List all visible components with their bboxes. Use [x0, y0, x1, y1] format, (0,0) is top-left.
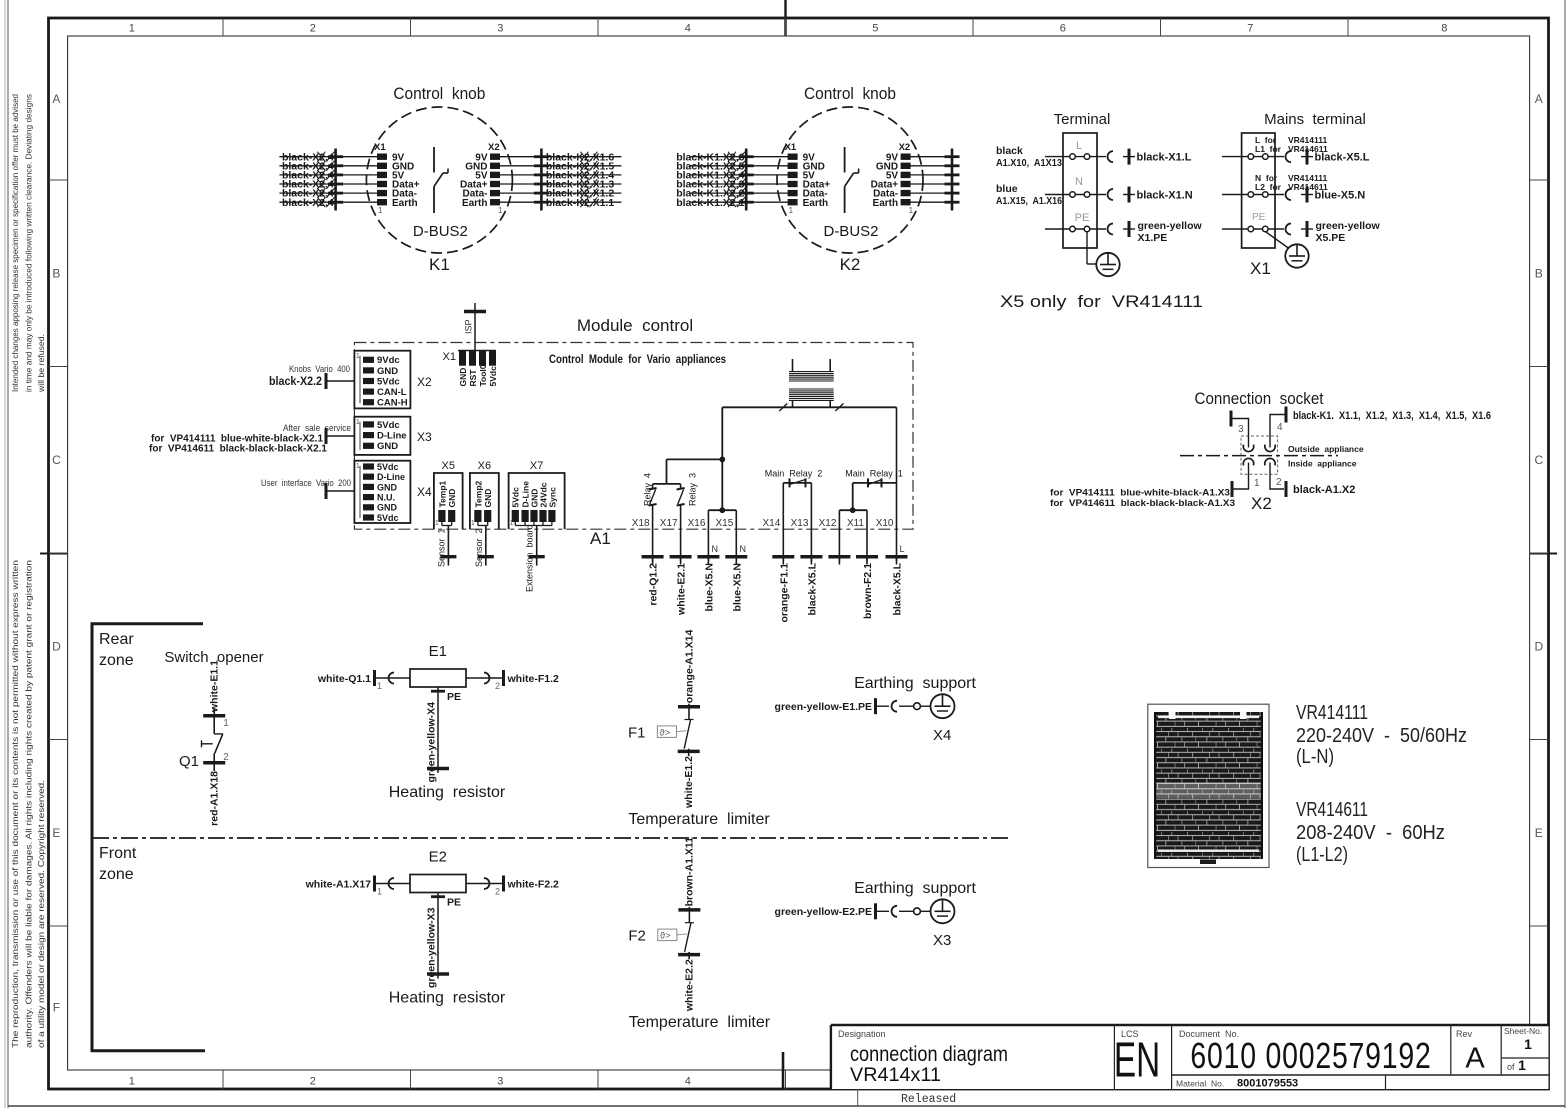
- svg-text:X10: X10: [876, 518, 894, 529]
- svg-text:X17: X17: [660, 518, 678, 529]
- svg-text:Designation: Designation: [838, 1029, 886, 1039]
- svg-text:for VP414611 black-black-bla: for VP414611 black-black-black-A1.X3: [1050, 498, 1235, 509]
- svg-text:1: 1: [510, 520, 514, 527]
- svg-text:5: 5: [872, 23, 878, 35]
- svg-text:white-E2.1: white-E2.1: [676, 563, 688, 616]
- svg-text:A: A: [1535, 92, 1543, 106]
- svg-text:X3: X3: [933, 932, 951, 949]
- svg-text:EN: EN: [1114, 1032, 1160, 1087]
- svg-text:Connection socket: Connection socket: [1195, 389, 1324, 408]
- svg-text:A1.X15, A1.X16: A1.X15, A1.X16: [996, 195, 1062, 207]
- svg-text:X1: X1: [785, 142, 797, 153]
- svg-text:X2: X2: [1251, 494, 1272, 513]
- svg-text:for VP414111 blue-white-blac: for VP414111 blue-white-black-A1.X3: [1050, 488, 1230, 499]
- svg-text:Tool0: Tool0: [478, 364, 488, 386]
- svg-text:7: 7: [1247, 23, 1253, 35]
- svg-text:B: B: [1535, 266, 1543, 280]
- svg-text:VR414611: VR414611: [1288, 182, 1328, 192]
- svg-text:8: 8: [1441, 23, 1447, 35]
- svg-text:5Vdc: 5Vdc: [377, 376, 400, 387]
- svg-text:6010 0002579192: 6010 0002579192: [1190, 1036, 1431, 1076]
- svg-text:2: 2: [310, 23, 316, 35]
- svg-text:2: 2: [310, 1076, 316, 1088]
- svg-text:A1.X10, A1X13: A1.X10, A1X13: [996, 157, 1062, 169]
- svg-text:green-yellow-E1.PE: green-yellow-E1.PE: [775, 701, 872, 713]
- svg-text:X7: X7: [530, 460, 543, 472]
- svg-text:X12: X12: [819, 518, 837, 529]
- svg-text:1: 1: [129, 1076, 135, 1088]
- svg-text:5Vdc: 5Vdc: [511, 487, 521, 508]
- svg-text:C: C: [52, 453, 61, 467]
- svg-text:blue-X5.N: blue-X5.N: [703, 563, 715, 611]
- svg-text:208-240V - 60Hz: 208-240V - 60Hz: [1296, 822, 1445, 844]
- svg-text:ISP: ISP: [464, 319, 474, 334]
- svg-text:Module control: Module control: [577, 316, 693, 335]
- svg-text:white-A1.X17: white-A1.X17: [305, 879, 372, 891]
- svg-text:white-F2.2: white-F2.2: [507, 879, 560, 891]
- svg-text:X15: X15: [716, 518, 734, 529]
- svg-text:Main Relay 2: Main Relay 2: [765, 469, 823, 479]
- svg-text:E1: E1: [429, 643, 447, 660]
- svg-text:F: F: [53, 1001, 60, 1015]
- svg-text:zone: zone: [99, 866, 134, 883]
- svg-text:X1: X1: [443, 351, 456, 363]
- svg-text:After sale service: After sale service: [283, 423, 351, 434]
- svg-text:Terminal: Terminal: [1054, 111, 1111, 128]
- svg-text:white-F1.2: white-F1.2: [507, 673, 560, 685]
- svg-text:User interface Vario 200: User interface Vario 200: [261, 478, 351, 489]
- svg-text:black-X1.L: black-X1.L: [1137, 152, 1192, 164]
- svg-text:A: A: [1465, 1043, 1485, 1075]
- svg-text:black-A1.X2: black-A1.X2: [1293, 484, 1355, 496]
- svg-text:Temp2: Temp2: [473, 480, 483, 507]
- svg-text:brown-A1.X11: brown-A1.X11: [684, 837, 696, 907]
- svg-text:Mains terminal: Mains terminal: [1264, 111, 1366, 128]
- svg-text:3: 3: [1238, 424, 1244, 435]
- svg-text:Q1: Q1: [179, 753, 199, 770]
- svg-text:VR414111: VR414111: [1296, 702, 1368, 724]
- svg-text:1: 1: [471, 520, 475, 527]
- svg-text:E: E: [52, 826, 60, 840]
- svg-text:D: D: [52, 639, 61, 653]
- svg-text:X11: X11: [847, 518, 864, 529]
- svg-text:Relay 4: Relay 4: [642, 473, 652, 506]
- svg-text:for VP414611 black-black-bla: for VP414611 black-black-black-X2.1: [149, 444, 327, 455]
- svg-text:5Vdc: 5Vdc: [488, 366, 498, 387]
- svg-text:1: 1: [498, 206, 503, 215]
- svg-text:1: 1: [356, 353, 360, 360]
- svg-text:1: 1: [909, 206, 914, 215]
- svg-text:1: 1: [435, 520, 439, 527]
- svg-text:white-Q1.1: white-Q1.1: [317, 673, 371, 685]
- svg-text:orange-F1.1: orange-F1.1: [778, 563, 790, 623]
- svg-text:Sensor 1: Sensor 1: [436, 528, 446, 567]
- svg-text:1: 1: [223, 718, 229, 729]
- svg-text:black: black: [996, 145, 1023, 157]
- svg-text:L2 for: L2 for: [1255, 182, 1282, 192]
- svg-text:CAN-L: CAN-L: [377, 387, 407, 398]
- svg-text:zone: zone: [99, 652, 134, 669]
- svg-text:ϑ>: ϑ>: [660, 931, 671, 942]
- svg-text:5Vdc: 5Vdc: [377, 513, 399, 523]
- svg-text:Relay 3: Relay 3: [688, 473, 698, 506]
- svg-text:Temp1: Temp1: [437, 480, 447, 507]
- svg-text:1: 1: [356, 419, 360, 426]
- svg-text:green-yellow-X3: green-yellow-X3: [426, 907, 438, 988]
- svg-text:Temperature limiter: Temperature limiter: [628, 811, 770, 828]
- svg-text:VR414x11: VR414x11: [850, 1065, 941, 1086]
- svg-text:blue: blue: [996, 183, 1018, 195]
- svg-text:Earthing support: Earthing support: [854, 675, 976, 692]
- svg-text:red-A1.X18: red-A1.X18: [209, 771, 221, 826]
- svg-text:N: N: [740, 544, 747, 554]
- svg-text:black-X5.L: black-X5.L: [806, 562, 818, 615]
- svg-text:D: D: [1534, 639, 1543, 653]
- svg-text:Control knob: Control knob: [804, 84, 896, 103]
- svg-text:4: 4: [1277, 422, 1283, 433]
- svg-text:white-E1.1: white-E1.1: [209, 660, 221, 713]
- svg-text:1: 1: [1518, 1057, 1526, 1073]
- svg-text:(L-N): (L-N): [1296, 746, 1334, 768]
- svg-text:1: 1: [377, 681, 382, 691]
- svg-text:3: 3: [497, 23, 503, 35]
- svg-text:Sheet-No.: Sheet-No.: [1504, 1026, 1542, 1036]
- svg-text:K2: K2: [840, 255, 861, 274]
- svg-text:220-240V - 50/60Hz: 220-240V - 50/60Hz: [1296, 725, 1467, 747]
- svg-text:(L1-L2): (L1-L2): [1296, 844, 1348, 866]
- svg-text:Earth: Earth: [392, 198, 418, 209]
- svg-text:green-yellow: green-yellow: [1316, 220, 1381, 232]
- svg-text:PE: PE: [447, 691, 461, 703]
- svg-text:D-Line: D-Line: [377, 472, 405, 482]
- svg-text:F2: F2: [628, 928, 646, 945]
- svg-text:K1: K1: [429, 255, 450, 274]
- svg-text:N: N: [1075, 176, 1083, 188]
- svg-text:X4: X4: [933, 727, 951, 744]
- svg-text:Extension board: Extension board: [525, 524, 535, 592]
- svg-text:Intended changes apposing rele: Intended changes apposing release specim…: [10, 94, 20, 392]
- svg-text:Control knob: Control knob: [393, 84, 485, 103]
- svg-text:Earth: Earth: [873, 198, 899, 209]
- svg-text:GND: GND: [377, 482, 398, 492]
- svg-text:PE: PE: [447, 897, 461, 909]
- svg-text:2: 2: [495, 887, 500, 897]
- svg-text:1: 1: [378, 206, 383, 215]
- svg-text:X5: X5: [442, 460, 455, 472]
- svg-text:ϑ>: ϑ>: [660, 727, 671, 738]
- svg-text:orange-A1.X14: orange-A1.X14: [683, 630, 695, 704]
- svg-text:L: L: [1076, 140, 1082, 152]
- svg-text:GND: GND: [447, 489, 457, 508]
- svg-text:connection diagram: connection diagram: [850, 1043, 1008, 1066]
- svg-text:D-BUS2: D-BUS2: [823, 223, 878, 240]
- svg-text:X1.PE: X1.PE: [1138, 232, 1168, 244]
- svg-text:PE: PE: [1252, 212, 1266, 223]
- svg-text:Front: Front: [99, 845, 137, 862]
- svg-text:X2: X2: [488, 142, 500, 153]
- svg-text:black-X5.L: black-X5.L: [892, 562, 904, 615]
- svg-text:will be refused.: will be refused.: [36, 334, 46, 393]
- svg-text:5Vdc: 5Vdc: [377, 462, 399, 472]
- svg-text:green-yellow-E2.PE: green-yellow-E2.PE: [775, 906, 872, 918]
- svg-text:1: 1: [789, 206, 794, 215]
- svg-text:GND: GND: [377, 366, 398, 377]
- svg-text:1: 1: [356, 463, 360, 470]
- svg-text:8001079553: 8001079553: [1237, 1078, 1298, 1090]
- svg-text:Heating resistor: Heating resistor: [389, 784, 506, 801]
- svg-text:VR414611: VR414611: [1288, 144, 1328, 154]
- svg-text:X1: X1: [374, 142, 386, 153]
- svg-text:2: 2: [1276, 477, 1282, 488]
- svg-text:GND: GND: [483, 489, 493, 508]
- svg-text:black-K1. X1.1, X1.2, X1.3,: black-K1. X1.1, X1.2, X1.3, X1.4, X1.5, …: [1293, 410, 1491, 422]
- svg-text:Earth: Earth: [803, 198, 829, 209]
- svg-text:of a utility model or design a: of a utility model or design are reserve…: [36, 780, 46, 1048]
- svg-text:2: 2: [223, 752, 229, 763]
- svg-text:Inside appliance: Inside appliance: [1288, 459, 1357, 469]
- svg-text:3: 3: [497, 1076, 503, 1088]
- svg-text:black-X2.2: black-X2.2: [269, 374, 322, 388]
- svg-text:N: N: [712, 544, 719, 554]
- svg-text:in time and may only be introd: in time and may only be introduced follo…: [24, 93, 34, 392]
- svg-text:X16: X16: [688, 518, 706, 529]
- svg-text:white-E2.2: white-E2.2: [683, 959, 695, 1012]
- svg-text:F1: F1: [628, 724, 646, 741]
- svg-text:X1: X1: [1250, 259, 1271, 278]
- svg-text:A: A: [52, 92, 60, 106]
- svg-text:Temperature limiter: Temperature limiter: [629, 1014, 771, 1031]
- svg-text:X3: X3: [417, 430, 432, 444]
- svg-text:Earthing support: Earthing support: [854, 880, 976, 897]
- svg-text:L: L: [900, 544, 905, 554]
- svg-text:X5.PE: X5.PE: [1316, 232, 1346, 244]
- svg-text:The reproduction, transmission: The reproduction, transmission or use of…: [10, 560, 20, 1048]
- svg-text:X18: X18: [632, 518, 650, 529]
- svg-text:Outside appliance: Outside appliance: [1288, 444, 1364, 454]
- svg-text:blue-X5.N: blue-X5.N: [731, 563, 743, 611]
- svg-text:B: B: [52, 266, 60, 280]
- svg-text:4: 4: [685, 1076, 691, 1088]
- svg-text:GND: GND: [458, 368, 468, 387]
- svg-text:N.U.: N.U.: [377, 493, 395, 503]
- svg-text:PE: PE: [1075, 212, 1090, 224]
- svg-text:6: 6: [1060, 23, 1066, 35]
- svg-text:1: 1: [377, 887, 382, 897]
- svg-text:black-K2.X1.1: black-K2.X1.1: [546, 197, 614, 209]
- svg-text:X2: X2: [899, 142, 911, 153]
- svg-text:1: 1: [1524, 1036, 1532, 1052]
- svg-text:GND: GND: [377, 503, 398, 513]
- svg-text:red-Q1.2: red-Q1.2: [648, 563, 660, 606]
- svg-text:green-yellow-X4: green-yellow-X4: [426, 702, 438, 783]
- svg-text:brown-F2.1: brown-F2.1: [862, 563, 874, 619]
- svg-text:C: C: [1534, 453, 1543, 467]
- svg-text:2: 2: [495, 681, 500, 691]
- svg-text:of: of: [1507, 1062, 1515, 1072]
- svg-text:GND: GND: [377, 441, 398, 452]
- svg-text:CAN-H: CAN-H: [377, 398, 408, 409]
- svg-text:X13: X13: [791, 518, 809, 529]
- svg-text:Sync: Sync: [547, 487, 557, 508]
- svg-text:Sensor 2: Sensor 2: [474, 528, 484, 567]
- svg-text:X14: X14: [763, 518, 781, 529]
- svg-text:Earth: Earth: [462, 198, 488, 209]
- svg-text:Material No.: Material No.: [1176, 1079, 1224, 1089]
- svg-text:1: 1: [129, 23, 135, 35]
- svg-text:A1: A1: [590, 529, 611, 548]
- svg-text:L1 for: L1 for: [1255, 144, 1282, 154]
- svg-text:X2: X2: [417, 375, 432, 389]
- svg-text:X6: X6: [478, 460, 491, 472]
- svg-text:1: 1: [1254, 478, 1260, 489]
- svg-text:RST: RST: [468, 369, 478, 387]
- svg-text:white-E1.2: white-E1.2: [683, 756, 695, 809]
- svg-text:X4: X4: [417, 485, 432, 499]
- svg-text:Rear: Rear: [99, 631, 134, 648]
- svg-text:Released: Released: [901, 1093, 956, 1106]
- svg-text:E2: E2: [429, 849, 447, 866]
- svg-text:9Vdc: 9Vdc: [377, 355, 400, 366]
- svg-text:X5 only for VR414111: X5 only for VR414111: [1000, 292, 1203, 311]
- svg-text:authority. Offenders will be l: authority. Offenders will be liable for …: [24, 560, 34, 1048]
- svg-text:Heating resistor: Heating resistor: [389, 990, 506, 1007]
- svg-text:5Vdc: 5Vdc: [377, 420, 400, 431]
- svg-text:Control Module for Vario a: Control Module for Vario appliances: [549, 352, 726, 366]
- svg-text:Main Relay 1: Main Relay 1: [845, 469, 903, 479]
- svg-text:black-X1.N: black-X1.N: [1137, 190, 1193, 202]
- svg-text:VR414611: VR414611: [1296, 799, 1368, 821]
- svg-text:green-yellow: green-yellow: [1138, 220, 1203, 232]
- svg-text:D-Line: D-Line: [377, 431, 407, 442]
- svg-text:E: E: [1535, 826, 1543, 840]
- svg-text:D-BUS2: D-BUS2: [413, 223, 468, 240]
- svg-text:Rev: Rev: [1456, 1029, 1473, 1039]
- svg-text:4: 4: [685, 23, 691, 35]
